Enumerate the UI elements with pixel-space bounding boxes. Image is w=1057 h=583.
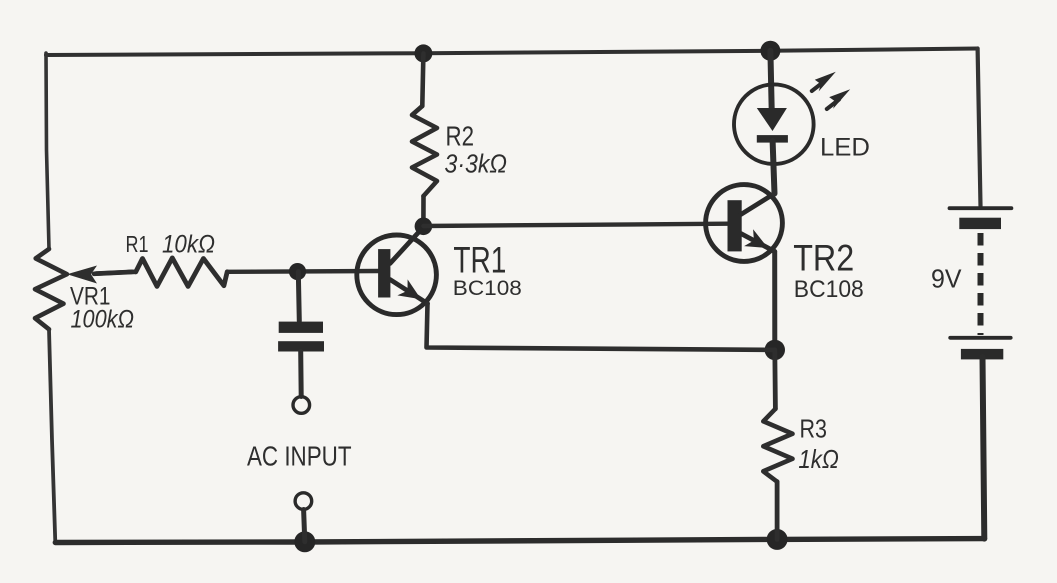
transistor TR1 base bar (378, 249, 390, 297)
node AC input on bottom rail (junction dot) (294, 531, 315, 552)
wire emitter node to R3 (772, 350, 777, 409)
svg-text:R1: R1 (126, 231, 149, 257)
svg-text:TR2: TR2 (793, 238, 854, 279)
node emitter junction (dot) (765, 340, 785, 360)
transistor TR1 emitter stroke (390, 280, 428, 304)
svg-text:3·3kΩ: 3·3kΩ (445, 149, 508, 179)
node R2 top (junction dot) (414, 44, 432, 62)
svg-text:LED: LED (820, 133, 870, 161)
node capacitor branch (junction dot) (289, 263, 306, 280)
transistor TR2 emitter arrowhead (744, 229, 768, 248)
wire R2 bottom lead (421, 196, 426, 226)
wire right rail upper (978, 49, 981, 207)
transistor TR1 emitter arrowhead (397, 279, 421, 299)
svg-text:9V: 9V (931, 264, 962, 294)
svg-text:AC INPUT: AC INPUT (247, 441, 352, 472)
wire R3 to bottom rail (775, 482, 780, 540)
svg-text:100kΩ: 100kΩ (71, 306, 135, 334)
LED body circle (734, 84, 814, 164)
LED light ray arrow 1 (812, 72, 836, 92)
potentiometer VR1 (zigzag) (35, 249, 67, 329)
battery BT1 cell 2 long plate (950, 336, 1011, 340)
svg-text:BC108: BC108 (453, 277, 522, 300)
transistor TR1 body circle (357, 235, 437, 315)
battery BT1 dashed link (978, 233, 984, 335)
capacitor C1 bottom plate (278, 341, 324, 351)
transistor TR2 body circle (706, 185, 783, 262)
wire top rail (46, 49, 978, 56)
resistor R2 (zigzag) (412, 106, 437, 196)
transistor TR2 collector stroke (741, 194, 775, 215)
wire junction to capacitor (298, 272, 299, 321)
wire left rail upper (46, 53, 49, 249)
battery BT1 cell 1 short thick plate (959, 218, 1001, 229)
transistor TR2 base bar (728, 200, 742, 251)
VR1 wiper arrow (67, 266, 132, 284)
LED cathode bar (757, 135, 788, 143)
battery BT1 cell 1 long plate (950, 206, 1012, 210)
capacitor C1 top plate (279, 322, 323, 333)
wire AC terminal 2 to bottom rail (304, 510, 305, 542)
LED diode triangle (757, 108, 787, 131)
svg-text:BC108: BC108 (794, 276, 864, 303)
svg-text:10kΩ: 10kΩ (162, 231, 215, 259)
LED light ray arrow 2 (827, 89, 850, 109)
node R3 bottom (junction dot) (767, 529, 788, 550)
wire bottom rail (55, 539, 984, 543)
wire left rail lower (49, 329, 55, 542)
wire capacitor to AC terminal 1 (298, 352, 304, 397)
resistor R1 (zigzag) (136, 258, 227, 287)
wire TR1 emitter down and across (427, 304, 775, 350)
battery BT1 cell 2 short thick plate (961, 349, 1003, 360)
node TR1 collector / R2 bottom (junction dot) (415, 218, 433, 236)
node LED top (junction dot) (760, 41, 780, 61)
wire wiper arrow to R1 (94, 272, 136, 274)
wire TR2 emitter down (772, 252, 777, 350)
wire LED cathode to TR2 collector (773, 141, 775, 194)
AC input terminal 1 (open circle) (293, 397, 310, 414)
svg-text:R2: R2 (446, 120, 475, 151)
resistor R3 (zigzag) (763, 409, 792, 482)
transistor TR1 collector stroke (390, 227, 423, 264)
wire R2 top lead (422, 53, 423, 106)
wire right rail lower (983, 357, 985, 539)
svg-text:R3: R3 (800, 413, 828, 443)
wire LED top feed (770, 51, 771, 110)
wire collector node to TR2 base (423, 224, 727, 226)
transistor TR2 emitter stroke (741, 234, 775, 252)
AC input terminal 2 (open circle) (295, 493, 312, 510)
svg-text:TR1: TR1 (453, 240, 506, 281)
svg-text:1kΩ: 1kΩ (798, 444, 839, 474)
wire R1 to TR1 base (227, 269, 378, 274)
